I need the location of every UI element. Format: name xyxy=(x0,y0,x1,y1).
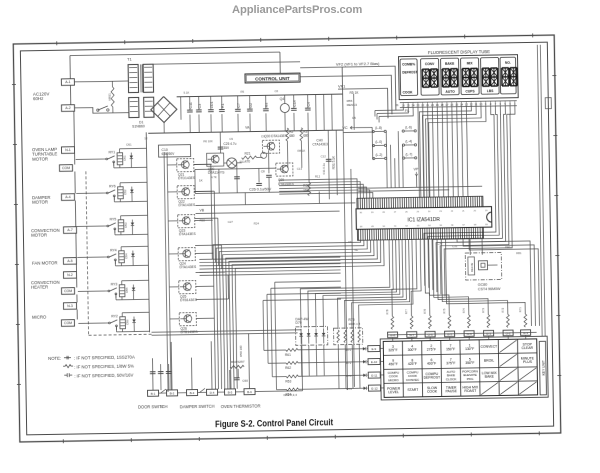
svg-text:VF2 (VF1 to VF2.7 Bias): VF2 (VF1 to VF2.7 Bias) xyxy=(336,61,380,67)
svg-text:MOTOR: MOTOR xyxy=(32,156,48,161)
svg-text:VF1: VF1 xyxy=(338,83,346,88)
svg-text:R39: R39 xyxy=(303,184,309,188)
svg-text:R63: R63 xyxy=(285,379,291,383)
svg-text:7: 7 xyxy=(495,102,497,106)
svg-text:A-7: A-7 xyxy=(67,228,72,232)
svg-text:14: 14 xyxy=(460,102,464,106)
svg-text:NO.: NO. xyxy=(505,61,511,65)
svg-text:4.7K: 4.7K xyxy=(211,175,217,179)
svg-text:C3: C3 xyxy=(198,104,202,109)
svg-text:R4: R4 xyxy=(265,103,269,108)
svg-text:DTA114YS: DTA114YS xyxy=(208,170,225,174)
svg-text:MOTOR: MOTOR xyxy=(32,200,48,205)
svg-text:150°F: 150°F xyxy=(446,347,455,351)
svg-text:FAN MOTOR: FAN MOTOR xyxy=(32,260,58,265)
svg-text:COM: COM xyxy=(64,321,72,325)
svg-text:C13: C13 xyxy=(297,167,303,171)
svg-text:R24: R24 xyxy=(254,221,260,225)
svg-text:D54: D54 xyxy=(124,253,128,259)
svg-text:RY4: RY4 xyxy=(110,248,117,252)
svg-text:9: 9 xyxy=(485,102,487,106)
svg-text:DTA143ES: DTA143ES xyxy=(179,265,197,269)
svg-text:MICRO: MICRO xyxy=(32,314,47,319)
svg-text:130°F: 130°F xyxy=(465,347,474,351)
svg-text:CUPS: CUPS xyxy=(465,89,475,93)
svg-text:AUTO: AUTO xyxy=(445,90,455,94)
svg-text:21: 21 xyxy=(462,211,465,213)
svg-text:PKG: PKG xyxy=(467,377,474,381)
svg-text:CONTROL UNIT: CONTROL UNIT xyxy=(255,76,290,82)
svg-text:D70: D70 xyxy=(295,321,301,325)
svg-text:R11: R11 xyxy=(240,160,245,164)
svg-text:KEY UNIT: KEY UNIT xyxy=(541,360,545,375)
svg-text:30: 30 xyxy=(360,212,363,214)
svg-text:54: 54 xyxy=(428,225,431,227)
svg-text:R74: R74 xyxy=(461,308,465,313)
svg-text:///: /// xyxy=(160,405,163,409)
svg-text:50: 50 xyxy=(383,226,386,228)
svg-text:24: 24 xyxy=(412,103,416,107)
svg-text:BAKE: BAKE xyxy=(445,62,455,66)
svg-text:RY2: RY2 xyxy=(111,314,118,318)
svg-text:RENC3: RENC3 xyxy=(347,103,358,107)
svg-text:35V: 35V xyxy=(223,146,230,150)
svg-text:16: 16 xyxy=(450,103,454,107)
svg-text:T1: T1 xyxy=(127,57,133,62)
svg-text:NOTE:: NOTE: xyxy=(48,356,61,361)
svg-text:5: 5 xyxy=(504,102,506,106)
svg-text:R71: R71 xyxy=(518,307,522,312)
svg-text:N-2: N-2 xyxy=(67,273,73,277)
svg-text:53: 53 xyxy=(417,225,420,227)
svg-text:D52: D52 xyxy=(123,189,127,195)
svg-text:23: 23 xyxy=(439,211,442,213)
svg-text:D-4: D-4 xyxy=(210,391,215,395)
svg-text:MICRO: MICRO xyxy=(388,378,399,382)
svg-text:RY5: RY5 xyxy=(110,217,117,221)
svg-text:R31 5.1K: R31 5.1K xyxy=(332,155,336,169)
svg-text:27: 27 xyxy=(394,212,397,214)
svg-text:FLUORESCENT DISPLAY TUBE: FLUORESCENT DISPLAY TUBE xyxy=(428,49,490,55)
svg-text:C60: C60 xyxy=(242,379,248,383)
svg-text:24: 24 xyxy=(428,211,431,213)
svg-text:LEVEL: LEVEL xyxy=(388,390,399,394)
svg-text:N-3: N-3 xyxy=(67,304,73,308)
svg-text:R76: R76 xyxy=(422,308,426,313)
svg-text:R75: R75 xyxy=(442,308,446,313)
svg-text:R21: R21 xyxy=(245,152,251,156)
svg-text:RY1: RY1 xyxy=(109,150,116,154)
svg-text:49: 49 xyxy=(371,226,374,228)
svg-text:C30: C30 xyxy=(437,241,443,245)
svg-text:R50 100: R50 100 xyxy=(239,345,243,357)
svg-text:R62: R62 xyxy=(285,366,291,370)
svg-text:BROIL: BROIL xyxy=(484,359,494,363)
svg-text:(L-0): (L-0) xyxy=(375,140,382,144)
svg-text:DTB143ES: DTB143ES xyxy=(180,298,198,302)
svg-text:300°F: 300°F xyxy=(408,348,417,352)
svg-text:375°F: 375°F xyxy=(446,361,455,365)
svg-text:5.1K: 5.1K xyxy=(184,91,190,95)
svg-text:DTD143ES: DTD143ES xyxy=(178,176,196,180)
svg-text:D2: D2 xyxy=(249,103,253,108)
svg-text:MOTOR: MOTOR xyxy=(31,233,47,238)
svg-text:22: 22 xyxy=(421,103,425,107)
svg-text:8: 8 xyxy=(490,102,492,106)
svg-text:25: 25 xyxy=(407,103,411,107)
svg-text:Figure S-2. Control Panel Circ: Figure S-2. Control Panel Circuit xyxy=(215,417,334,430)
svg-text:E-11: E-11 xyxy=(371,373,378,377)
svg-text:17: 17 xyxy=(445,103,449,107)
svg-text:55: 55 xyxy=(440,225,443,227)
svg-text:PAUSE: PAUSE xyxy=(446,389,458,393)
svg-text:E-10: E-10 xyxy=(371,360,378,364)
svg-text:C12: C12 xyxy=(321,154,327,158)
svg-text:VP: VP xyxy=(413,167,418,171)
svg-text:C11 0.1u: C11 0.1u xyxy=(322,163,326,175)
svg-text:23: 23 xyxy=(416,103,420,107)
svg-text:C14: C14 xyxy=(293,100,297,107)
svg-text:10: 10 xyxy=(479,102,483,106)
svg-text:COOK: COOK xyxy=(427,390,438,394)
svg-text:25: 25 xyxy=(417,211,420,213)
svg-text:60Hz: 60Hz xyxy=(33,96,43,101)
svg-text:R12: R12 xyxy=(315,174,321,178)
svg-text:DAMPER SWITCH: DAMPER SWITCH xyxy=(180,404,215,410)
svg-text:470: 470 xyxy=(245,160,251,164)
svg-text:425°F: 425°F xyxy=(408,362,417,366)
svg-text:(L-6): (L-6) xyxy=(405,125,412,129)
svg-text:R73: R73 xyxy=(481,307,485,312)
svg-text:DEFROST: DEFROST xyxy=(424,376,441,380)
svg-text:48: 48 xyxy=(360,226,363,228)
svg-text:19: 19 xyxy=(485,210,488,212)
svg-text:HEATER: HEATER xyxy=(31,285,48,290)
svg-text:R77: R77 xyxy=(404,309,408,314)
svg-text:DEFROST: DEFROST xyxy=(402,70,417,74)
svg-text:CONV: CONV xyxy=(425,62,435,66)
svg-text:21: 21 xyxy=(426,103,430,107)
svg-text:400°F: 400°F xyxy=(427,362,436,366)
svg-text:C11: C11 xyxy=(189,102,193,108)
svg-text:VD: VD xyxy=(348,240,352,244)
svg-text:325°F: 325°F xyxy=(388,348,397,352)
svg-text:13: 13 xyxy=(465,102,469,106)
svg-text:CONVECT: CONVECT xyxy=(480,345,498,349)
svg-text:RY3: RY3 xyxy=(111,282,118,286)
svg-text:26: 26 xyxy=(402,103,406,107)
svg-text:22: 22 xyxy=(451,211,454,213)
svg-text:D71: D71 xyxy=(346,348,352,352)
svg-text:680: 680 xyxy=(289,134,295,138)
svg-text:58: 58 xyxy=(474,224,477,226)
svg-text:56: 56 xyxy=(451,225,454,227)
svg-text:B-6: B-6 xyxy=(247,390,252,394)
svg-text:D3: D3 xyxy=(261,134,265,138)
svg-text:(L-7): (L-7) xyxy=(406,152,413,156)
svg-text:R72: R72 xyxy=(500,307,504,312)
svg-text:D73: D73 xyxy=(346,374,352,378)
svg-text:(L-8): (L-8) xyxy=(375,126,382,130)
svg-text:OVEN THERMISTOR: OVEN THERMISTOR xyxy=(221,403,261,409)
svg-text:C6: C6 xyxy=(275,89,279,93)
svg-text:15: 15 xyxy=(455,102,459,106)
svg-text:: IF NOT SPECIFIED, 1SS270A: : IF NOT SPECIFIED, 1SS270A xyxy=(74,355,135,361)
svg-text:FIL: FIL xyxy=(405,109,410,113)
svg-text:C7: C7 xyxy=(237,103,241,108)
svg-text:19: 19 xyxy=(436,103,440,107)
svg-text:COOK: COOK xyxy=(403,90,414,94)
svg-text:B-5: B-5 xyxy=(228,390,233,394)
svg-text:R81: R81 xyxy=(516,251,522,255)
svg-text:1K: 1K xyxy=(144,136,148,140)
svg-text:57: 57 xyxy=(462,225,465,227)
svg-text:R60 52R7: R60 52R7 xyxy=(231,360,245,364)
svg-text:26: 26 xyxy=(405,211,408,213)
svg-text:51: 51 xyxy=(394,226,397,228)
svg-text:20: 20 xyxy=(431,103,435,107)
svg-text:D72: D72 xyxy=(346,361,352,365)
svg-text:CLOCK: CLOCK xyxy=(446,377,458,381)
svg-text:DA1 2,3,4: DA1 2,3,4 xyxy=(284,393,298,397)
svg-text:20: 20 xyxy=(474,210,477,212)
svg-text:6: 6 xyxy=(500,102,502,106)
svg-text:S1NB60: S1NB60 xyxy=(132,124,145,128)
svg-text:START: START xyxy=(407,388,419,392)
svg-text:(L-2): (L-2) xyxy=(376,153,383,157)
svg-text:R5: R5 xyxy=(241,90,245,94)
svg-text:R80: R80 xyxy=(505,245,511,249)
svg-text:29: 29 xyxy=(371,212,374,214)
svg-text:VRS1: VRS1 xyxy=(108,93,112,101)
svg-text:E-9: E-9 xyxy=(371,347,376,351)
svg-text:D55: D55 xyxy=(125,287,129,293)
svg-text:B-3: B-3 xyxy=(190,391,195,395)
svg-text:52: 52 xyxy=(405,225,408,227)
svg-text:VE: VE xyxy=(354,248,358,252)
svg-text:450°F: 450°F xyxy=(389,362,398,366)
svg-text:PLUS: PLUS xyxy=(523,360,533,364)
svg-text:275°F: 275°F xyxy=(427,348,436,352)
svg-text:R1: R1 xyxy=(221,103,225,108)
svg-text:1K: 1K xyxy=(199,178,203,182)
svg-text:Q4: Q4 xyxy=(280,97,285,101)
svg-text:VA: VA xyxy=(245,126,250,130)
svg-text:R6 10K: R6 10K xyxy=(203,139,213,143)
svg-text:DTA143ES: DTA143ES xyxy=(178,203,196,207)
svg-text:ZD1: ZD1 xyxy=(210,101,214,108)
svg-text:C9: C9 xyxy=(229,137,233,141)
svg-text:R78: R78 xyxy=(385,309,389,314)
svg-text:18: 18 xyxy=(441,103,445,107)
svg-text:6.8u/50V: 6.8u/50V xyxy=(162,152,176,156)
svg-text:350°F: 350°F xyxy=(465,361,474,365)
svg-text:VB: VB xyxy=(199,208,204,212)
svg-text:D74: D74 xyxy=(346,387,352,391)
svg-text:(L-4): (L-4) xyxy=(405,139,412,143)
svg-text:59: 59 xyxy=(485,224,488,226)
svg-text:C4: C4 xyxy=(307,102,311,107)
svg-text:R8 1K: R8 1K xyxy=(298,149,306,153)
svg-text:LBS: LBS xyxy=(487,89,494,93)
svg-text:A-2: A-2 xyxy=(65,106,70,110)
svg-text:: IF NOT SPECIFIED, 50V/16V: : IF NOT SPECIFIED, 50V/16V xyxy=(74,373,133,379)
svg-text:N-1: N-1 xyxy=(65,148,71,152)
svg-text:COM: COM xyxy=(62,166,70,170)
svg-text:C26 0.1u/50V: C26 0.1u/50V xyxy=(249,187,272,191)
svg-text:3: 3 xyxy=(514,101,516,105)
svg-text:100K x 4: 100K x 4 xyxy=(348,322,360,326)
svg-text:D51: D51 xyxy=(123,155,127,161)
svg-text:ROAST: ROAST xyxy=(464,389,477,393)
svg-text:D51: D51 xyxy=(126,143,132,147)
svg-text:R61: R61 xyxy=(285,353,291,357)
svg-text:28: 28 xyxy=(382,212,385,214)
svg-text:Q30 DTA143ES: Q30 DTA143ES xyxy=(264,134,287,138)
svg-text:A-4: A-4 xyxy=(65,195,70,199)
svg-text:E-12: E-12 xyxy=(371,386,378,390)
svg-text:COM: COM xyxy=(64,289,72,293)
svg-text:RY6: RY6 xyxy=(109,184,116,188)
svg-text:CST4 96M0W: CST4 96M0W xyxy=(478,287,501,291)
svg-text:CTA143E3: CTA143E3 xyxy=(312,142,328,146)
svg-text:DAP-4W: DAP-4W xyxy=(295,317,309,321)
svg-text:CLEAR: CLEAR xyxy=(521,346,533,350)
svg-text:REC.W: REC.W xyxy=(470,262,474,271)
svg-text:R22: R22 xyxy=(200,218,206,222)
svg-text:CONVEC: CONVEC xyxy=(406,378,420,382)
svg-text:BAKE: BAKE xyxy=(485,375,495,379)
svg-text:: IF NOT SPECIFIES, 1/8W 5%: : IF NOT SPECIFIES, 1/8W 5% xyxy=(74,364,134,370)
svg-text:D53: D53 xyxy=(124,222,128,228)
svg-text:D56: D56 xyxy=(125,319,129,325)
svg-text:COMB%: COMB% xyxy=(402,62,415,66)
svg-text:C8: C8 xyxy=(261,169,265,173)
svg-text:A-5: A-5 xyxy=(67,259,72,263)
svg-text:12: 12 xyxy=(470,102,474,106)
svg-text:B-1: B-1 xyxy=(151,391,156,395)
svg-text:R5 1K: R5 1K xyxy=(350,91,360,95)
svg-text:MIX: MIX xyxy=(467,61,474,65)
svg-text:B-2: B-2 xyxy=(170,391,175,395)
svg-text:C27: C27 xyxy=(228,220,234,224)
svg-text:DTA143ES: DTA143ES xyxy=(179,232,197,236)
svg-text:IC1 IZA541DR: IC1 IZA541DR xyxy=(407,217,440,224)
svg-text:A-1: A-1 xyxy=(65,80,70,84)
svg-text:C31: C31 xyxy=(452,244,458,248)
svg-text:26: 26 xyxy=(395,103,399,107)
